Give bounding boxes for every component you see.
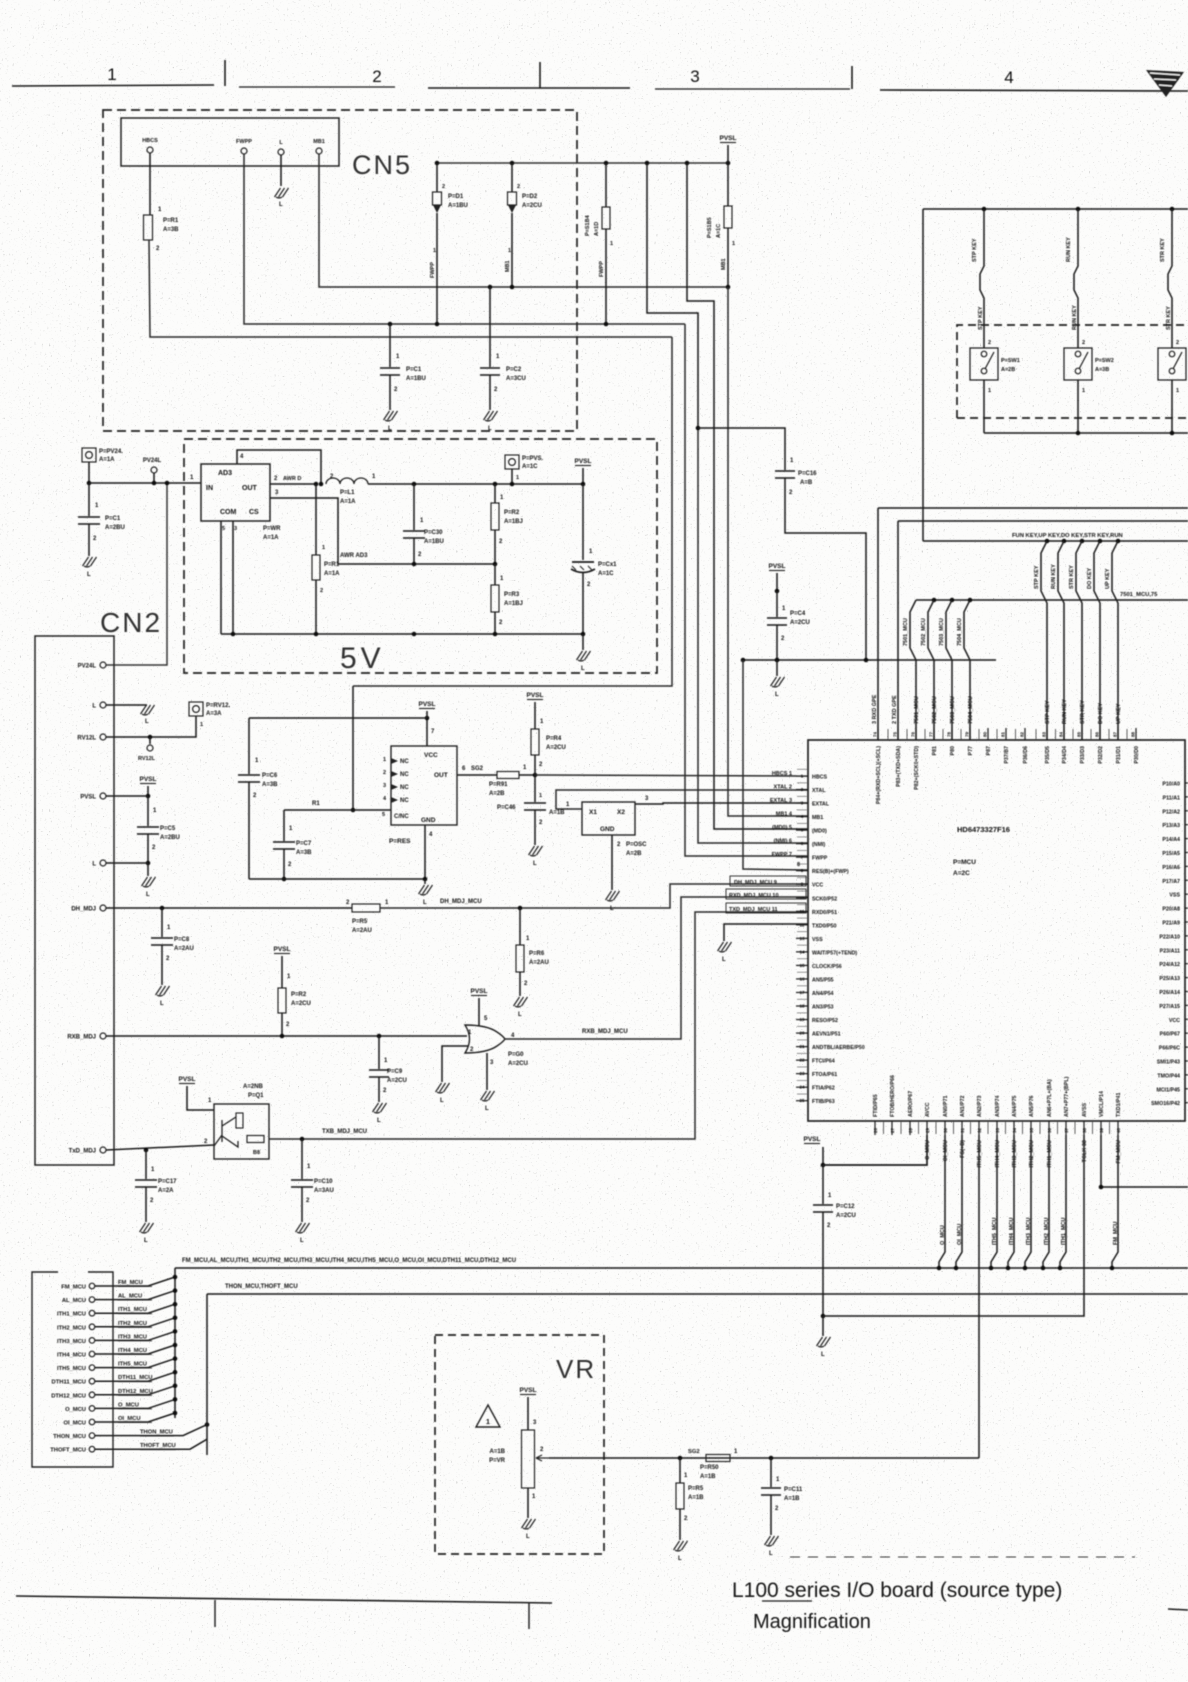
MCU top pin 75 (897, 728, 899, 740)
ruler tick 2 (539, 62, 541, 88)
MCU pin 13 VSS (796, 937, 808, 939)
capacitor P=C16 chain (698, 428, 785, 470)
inductor P=L1 (326, 478, 368, 484)
wire 7503_MCU drop (950, 598, 955, 603)
wire RXB to MCU pin 10 (505, 897, 808, 1039)
terminal P=PVS (505, 455, 519, 469)
ruler tick 3 (851, 66, 853, 89)
connector CN2 body (35, 636, 114, 1165)
capacitor P=C11 (770, 1458, 772, 1487)
MCU top pin 84 (1063, 728, 1065, 740)
wire VCC feed to MCU pin 8 (741, 658, 746, 663)
bus line 2 THON THOFT (207, 1293, 1188, 1295)
ground C12 (822, 1316, 824, 1336)
node D2 bottom (510, 285, 515, 290)
MCU top pin 85 (1081, 728, 1083, 740)
wire 7501_MCU drop (910, 600, 916, 740)
wire FM_MCU to bus (1112, 1135, 1118, 1268)
node D1 bottom (435, 322, 440, 327)
MCU bottom pin 30 (944, 1121, 946, 1135)
MCU bottom pin 38 (1083, 1121, 1085, 1135)
bus 7501 line (916, 599, 1188, 601)
wire 7502_MCU drop (932, 598, 937, 603)
MCU pin 23 FTOA/P61 (796, 1073, 808, 1075)
capacitor P=C46 (534, 775, 536, 802)
transistor P=Q1 box (214, 1104, 269, 1159)
wire PV24L to CN2 (106, 483, 167, 665)
MCU pin 2 XTAL (796, 789, 808, 791)
switches dashed enclosure (957, 325, 1188, 418)
wire ITH3_MCU to bus (1025, 1135, 1031, 1268)
MCU bottom pin 34 (1013, 1121, 1015, 1135)
wire pin 31 to VR (978, 1135, 980, 1458)
regulator P=AD3 (201, 464, 270, 521)
terminal P=RV12 (189, 702, 203, 716)
crystal X1 X2 body (582, 802, 635, 835)
wire STP KEY drop (1045, 539, 1050, 544)
wire ITH2_MCU to bus (1043, 1135, 1049, 1268)
node MB1 junction (726, 285, 731, 290)
ground osc (424, 879, 426, 884)
resistor P=R2 (493, 482, 498, 487)
ground C2 (484, 411, 498, 421)
MCU bottom pin 29 (926, 1121, 928, 1135)
MCU pin 25 FTIB/P63 (796, 1100, 808, 1102)
potentiometer P=VR (522, 1430, 535, 1488)
node D1 top (435, 161, 440, 166)
switch rail bottom (984, 432, 1188, 434)
ground C1 (384, 411, 398, 421)
capacitor P=C1 (389, 324, 391, 367)
wire R1 line to C/NC (284, 809, 391, 811)
capacitor P=C30 (413, 484, 415, 530)
warning triangle (476, 1405, 500, 1427)
wire DH to MCU pin 9 (380, 884, 808, 908)
wire 7504_MCU drop (968, 598, 973, 603)
capacitor P=C8 (161, 908, 163, 937)
AD3 pin 4 wire (237, 450, 321, 484)
MCU pin 11 RXD0/P51 (796, 910, 808, 912)
corner triangle mark (1146, 70, 1184, 97)
boxed label DH_MDJ_MCU 9 (730, 876, 806, 886)
MCU pin 10 SCK0/P52 (796, 897, 808, 899)
MCU bottom pin 27 (891, 1121, 893, 1135)
capacitor P=C4 (776, 591, 778, 617)
diode P=D2 (511, 163, 513, 192)
wire C12 to pin 37 (823, 1135, 1084, 1316)
wire TxD_MDJ (106, 1145, 214, 1150)
connector lower body (32, 1272, 113, 1467)
capacitor P=C12 (822, 1165, 824, 1204)
MCU top pin 81 (1005, 728, 1007, 740)
wire FWPP down and right (244, 154, 685, 324)
MCU top pin 74 (877, 728, 879, 740)
wire TXD GPE (898, 520, 1188, 522)
wire O_MCU to bus (939, 1135, 945, 1268)
wire PV24 to regulator (89, 482, 201, 484)
MCU top pin 86 (1099, 728, 1101, 740)
oscillator P=RES body (391, 746, 457, 825)
MCU top pin 88 (1135, 728, 1137, 740)
wire PVSL rail mid (743, 659, 996, 661)
resistor P=R5 (352, 904, 380, 912)
CN5 dashed enclosure (103, 110, 577, 431)
node R6 tap (518, 906, 523, 911)
wire DH_MDJ (106, 907, 352, 909)
resistor P=S1B5 (726, 161, 731, 166)
node C1 tap (388, 322, 393, 327)
ground C9 (373, 1103, 387, 1113)
MCU top pin 82 (1024, 728, 1026, 740)
gate pin 3 ground (486, 1053, 488, 1090)
faint dashed separator (790, 1556, 1135, 1558)
MCU pin 1 HBCS (796, 775, 808, 777)
capacitor P=C7 (283, 810, 285, 841)
ground C11 (765, 1536, 779, 1546)
AD3 COM pins (220, 521, 222, 634)
wire VR wiper to MCU (549, 1457, 979, 1459)
MCU bottom pin 36 (1048, 1121, 1050, 1135)
resistor P=R6 (519, 908, 521, 945)
MCU pin 15 CLOCK/P56 (796, 964, 808, 966)
ground VR (522, 1519, 536, 1529)
5V ground rail (221, 633, 583, 635)
connector CN5 body (121, 118, 339, 166)
ground 5V rail (582, 634, 584, 650)
resistor P=R4 (531, 729, 539, 755)
switch P=SW2 RUN KEY (1074, 209, 1078, 348)
wire RXD GPE (878, 507, 1188, 509)
resistor P=R91 (497, 772, 519, 779)
resistor P=R1 5v (315, 484, 317, 555)
crystal pin 1 to XTAL (556, 790, 808, 809)
MCU pin 3 EXTAL (796, 802, 808, 804)
MCU pin 24 FTIA/P62 (796, 1086, 808, 1088)
MCU pin 9 VCC (796, 883, 808, 885)
MCU bottom pin 39 (1100, 1121, 1102, 1135)
wire MB1 to MCU pin 4 (728, 287, 808, 816)
resistor P=R51 shunt (679, 1458, 681, 1483)
wire RUN KEY drop (1062, 539, 1067, 544)
osc OUT pin 6 / SG2 (457, 774, 497, 776)
wire R1 node (352, 686, 354, 810)
ground C4 (776, 660, 778, 676)
wire RV12L (106, 716, 196, 737)
boxed label TXD_MDJ_MCU 11 (726, 903, 806, 913)
MCU bottom pin 31 (961, 1121, 963, 1135)
MCU pin 12 TXD0/P50 (796, 924, 808, 926)
osc bottom rail (249, 878, 425, 880)
wire rail down to key bus (922, 209, 924, 541)
capacitor P=C5 (147, 796, 149, 826)
MCU top pin 76 (915, 728, 917, 740)
bus collector vertical (174, 1268, 176, 1418)
AD3 CS pin 3 wire (270, 498, 338, 564)
resistor P=R1 (144, 215, 153, 240)
node C30 top (412, 482, 417, 487)
node S1B4 bottom (604, 322, 609, 327)
capacitor P=C10 (301, 1139, 303, 1179)
switch rail top (923, 208, 1188, 210)
wire OI_MCU to bus (956, 1135, 962, 1268)
wire pin 39 right (1101, 1135, 1188, 1187)
MCU pin 19 RESO/P52 (796, 1019, 808, 1021)
MCU bottom pin 33 (996, 1121, 998, 1135)
wire ITH4_MCU to bus (1008, 1135, 1014, 1268)
wire CN2 L2 (106, 862, 148, 864)
bus line 1 MCU signals (175, 1267, 1188, 1269)
node C16 tap (696, 426, 701, 431)
MCU bottom pin 26 (874, 1121, 876, 1135)
MCU pin 17 AN4/P54 (796, 991, 808, 993)
MCU bottom pin 37 (1065, 1121, 1067, 1135)
capacitor P=C1 pv24 (88, 483, 90, 516)
wire FWPP to MCU pin 7 (685, 324, 808, 856)
wire SG2 to MCU pin 1 (535, 775, 808, 776)
MCU top pin 80 (987, 728, 989, 740)
MCU pin 6 (NMI) (796, 843, 808, 845)
wire TXB to MCU pin 11 (269, 912, 808, 1139)
MCU top pin 87 (1117, 728, 1119, 740)
node S1B4 top (604, 161, 609, 166)
wire HBCS bus down (353, 337, 672, 686)
MCU pin 21 ANDTBL/AERBE/P50 (796, 1046, 808, 1048)
ruler tick 1 (224, 60, 226, 86)
resistor P=R7 pullup (278, 988, 286, 1013)
osc GND pin 4 (424, 825, 426, 879)
MCU top pin 77 (933, 728, 935, 740)
bus2 collector vertical (206, 1294, 208, 1455)
microcontroller P=MCU HD6473327F16 (808, 740, 1185, 1121)
crystal pin 3 to EXTAL (635, 803, 808, 804)
MCU bottom pin 40 (1117, 1121, 1119, 1135)
wire L1 to right (368, 483, 583, 485)
ground C1 pv24 (83, 557, 97, 567)
top ruler line (12, 85, 214, 86)
wire key1 down (645, 161, 650, 166)
MCU pin 8 RES(B)+(FWP) (796, 870, 808, 872)
ground L2 (147, 863, 149, 876)
MCU pin 18 AN3/P53 (796, 1005, 808, 1007)
ground L CN5 (275, 188, 289, 198)
MCU bottom pin 28 (909, 1121, 911, 1135)
ground C10 (296, 1223, 310, 1233)
VR bottom pin (527, 1488, 529, 1518)
stub RV12L (149, 737, 151, 744)
resistor P=S1B4 (605, 163, 607, 207)
MCU bottom pin 32 (978, 1121, 980, 1135)
AD3 output pin 2 (270, 483, 316, 485)
switch P=SW1 STP KEY (980, 209, 984, 348)
bus FUN KEY line (923, 540, 1188, 542)
5V dashed enclosure (184, 439, 657, 673)
MCU top pin 78 (951, 728, 953, 740)
resistor P=R3 (494, 564, 496, 585)
wire UP KEY drop (1116, 539, 1121, 544)
MCU pin 7 FWPP (796, 856, 808, 858)
capacitor P=Cx1 electrolytic (582, 484, 584, 560)
MCU pin 4 MB1 (796, 816, 808, 818)
VR dashed enclosure (435, 1335, 604, 1554)
wire CN2 L ground (106, 704, 147, 706)
wire DO KEY drop (1098, 539, 1103, 544)
ground C17 (140, 1223, 154, 1233)
bottom tick 1 (214, 1600, 216, 1627)
MCU top pin 83 (1046, 728, 1048, 740)
ground C8 (156, 986, 170, 996)
crystal pin 2 (611, 835, 613, 890)
ground crystal (606, 891, 620, 901)
wire ITH1_MCU to bus (1060, 1135, 1066, 1268)
wire HBCS down (149, 153, 151, 215)
ground C46 (529, 846, 543, 856)
wire CN2 PVSL (106, 795, 148, 797)
gate input 2 ground (442, 1046, 468, 1082)
wire ITH5_MCU to bus (991, 1135, 997, 1268)
MCU top pin 79 (969, 728, 971, 740)
MCU pin 16 AN5/P55 (796, 978, 808, 980)
bottom right mark (1168, 1609, 1188, 1610)
MCU bottom pin 35 (1030, 1121, 1032, 1135)
wire HBCS to bus (149, 240, 672, 337)
capacitor P=C2 (489, 287, 491, 367)
osc VCC pin 7 (426, 718, 428, 746)
MCU pin 12 ground stub (724, 924, 808, 941)
wire L to ground (280, 155, 282, 186)
boxed label RXD_MDJ_MCU 10 (726, 889, 806, 899)
MCU pin 22 FTCI/P64 (796, 1059, 808, 1061)
ground R51 (674, 1541, 688, 1551)
capacitor P=C9 (378, 1036, 380, 1069)
transistor Q1 internals (214, 1117, 238, 1147)
node C2 tap (488, 285, 493, 290)
wire AVCC pin 28 (823, 1135, 927, 1165)
wire key1 to MCU pin 6 (698, 428, 808, 843)
bottom ruler line (16, 1596, 552, 1603)
terminal P=PV24 (82, 448, 96, 462)
node D2 top (510, 161, 515, 166)
capacitor P=C17 (145, 1150, 147, 1179)
AWR AD3 line (338, 563, 495, 565)
bottom tick 2 (528, 1603, 530, 1629)
diode P=D1 (436, 163, 438, 192)
wire STR KEY drop (1080, 539, 1085, 544)
wire VCC rail to C6 (249, 717, 427, 719)
ground R6 (514, 997, 528, 1007)
MCU pin 5 (MD0) (796, 829, 808, 831)
MCU pin 20 AEVN1/P51 (796, 1032, 808, 1034)
MCU pin 14 WAIT/P57(+TEND) (796, 951, 808, 953)
wire MB1 down and right (319, 154, 728, 287)
wire RXB_MDJ (106, 1035, 467, 1037)
PVSL rail in CN5 (437, 162, 728, 164)
wire key2 down (685, 161, 690, 166)
capacitor P=C6 (248, 718, 250, 774)
or-gate P=G0 (465, 1025, 505, 1053)
switch P=SW3 STR KEY (1168, 209, 1172, 348)
